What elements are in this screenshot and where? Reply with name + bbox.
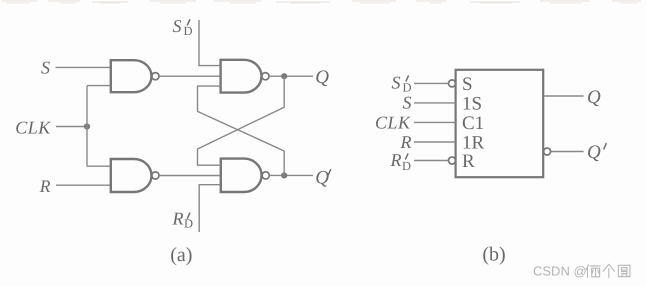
wire Q output — [543, 95, 583, 97]
svg-text:(b): (b) — [482, 243, 505, 265]
label Q' output — [587, 142, 606, 163]
svg-text:Q: Q — [587, 87, 601, 108]
bubble RD' — [449, 157, 456, 164]
svg-text:D: D — [402, 159, 411, 173]
wire RD' vertical — [199, 185, 219, 232]
wire feedback Q to G4 top input — [198, 76, 285, 165]
wire S input — [56, 66, 111, 68]
label Q' — [315, 167, 331, 188]
wire SD' — [414, 82, 449, 84]
svg-text:Q: Q — [587, 142, 601, 163]
NAND gate G3 body — [221, 60, 262, 93]
watermark glyph lia — [586, 265, 600, 278]
bubble SD' — [449, 80, 456, 87]
svg-text:S: S — [392, 72, 401, 92]
svg-text:D: D — [184, 24, 193, 38]
wire feedback Q' to G3 bottom input — [198, 86, 285, 175]
svg-text:Q: Q — [315, 67, 329, 88]
bubble Q' output — [544, 148, 551, 155]
svg-text:CSDN @: CSDN @ — [533, 264, 587, 279]
wire CLK input — [56, 126, 87, 128]
wire SD' vertical — [199, 20, 219, 66]
NAND gate G1 body — [111, 60, 152, 92]
svg-text:S: S — [462, 74, 473, 95]
junction CLK node — [84, 123, 90, 129]
svg-text:(a): (a) — [170, 244, 192, 266]
svg-text:C1: C1 — [462, 113, 484, 134]
label RD' clear — [172, 209, 194, 231]
svg-text:1S: 1S — [462, 94, 482, 115]
NAND gate G4 body — [221, 159, 262, 192]
svg-text:Q: Q — [315, 167, 329, 188]
svg-text:R: R — [462, 151, 475, 172]
svg-text:CLK: CLK — [15, 117, 51, 137]
wire RD' — [414, 160, 449, 162]
wire CLK to G2 upper input — [87, 165, 110, 167]
NAND gate G2 body — [111, 159, 152, 192]
wire R input — [56, 184, 110, 186]
NAND gate G1 bubble — [152, 73, 159, 80]
watermark glyph ge — [603, 264, 614, 277]
svg-text:CLK: CLK — [375, 113, 411, 133]
NAND gate G4 bubble — [262, 172, 269, 179]
junction node Q' — [281, 172, 287, 178]
wire CLK to G1 lower input — [87, 85, 110, 87]
label SD' preset — [173, 16, 193, 38]
label SD' input — [392, 72, 412, 94]
svg-text:R: R — [39, 176, 51, 196]
NAND gate G2 bubble — [152, 172, 159, 179]
svg-text:D: D — [184, 217, 193, 231]
svg-text:S: S — [41, 58, 50, 78]
wire R — [414, 141, 456, 143]
wire G1 output to G3 — [159, 75, 219, 77]
svg-text:S: S — [173, 16, 182, 36]
svg-text:R: R — [400, 132, 412, 152]
NAND gate G3 bubble — [262, 73, 269, 80]
wire CLK vertical — [86, 86, 88, 167]
wire G3 output — [269, 75, 313, 77]
wire G2 output to G4 — [159, 175, 219, 177]
wire Q' output — [551, 151, 584, 153]
flip-flop symbol box U1 — [456, 70, 544, 177]
svg-text:R: R — [172, 209, 184, 229]
label RD' input — [390, 150, 412, 173]
top edge artifact strip — [2, 1, 641, 3]
svg-text:R: R — [390, 150, 402, 170]
wire CLK — [414, 121, 456, 123]
watermark glyph yuan — [618, 265, 630, 276]
svg-text:S: S — [403, 93, 412, 113]
wire G4 output — [270, 174, 314, 176]
junction node Q — [281, 73, 287, 79]
wire S — [414, 102, 456, 104]
